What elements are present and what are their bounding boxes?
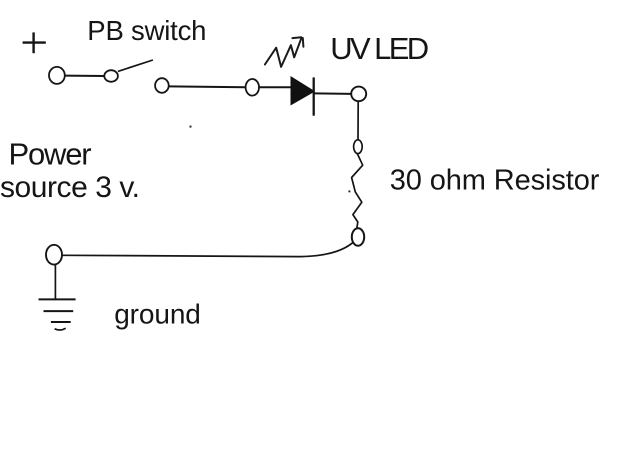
return wire resistor to battery negative (62, 243, 353, 257)
LED D1 triangle (anode) (291, 77, 314, 105)
resistor R1 bottom terminal ellipse (352, 228, 364, 245)
svg-text:PB switch: PB switch (87, 15, 206, 46)
switch throw terminal circle (155, 78, 169, 93)
wire terminal down to ground (54, 265, 56, 299)
svg-text:ground: ground (114, 299, 201, 330)
wire switch to LED anode node (169, 85, 246, 88)
top node circle (351, 87, 366, 102)
stray dot near switch area (189, 125, 191, 127)
wire pole to lever pivot (65, 75, 105, 77)
svg-text:Power: Power (9, 137, 92, 172)
wire node to LED anode (259, 86, 292, 88)
resistor R1 top terminal ellipse (354, 140, 363, 154)
LED anode node circle (246, 79, 259, 96)
battery negative terminal ellipse (46, 245, 62, 265)
svg-text:UV LED: UV LED (330, 31, 428, 66)
stray dot left of resistor (348, 190, 350, 192)
wire cathode to top node (315, 92, 352, 95)
svg-text:source 3 v.: source 3 v. (0, 171, 140, 204)
switch lever arm (open) (118, 60, 153, 71)
LED D1 cathode bar (313, 77, 315, 115)
switch S1 pole terminal circle (49, 67, 65, 84)
switch lever pivot circle (104, 70, 118, 82)
LED emission arrow (zigzag) (265, 37, 304, 67)
svg-text:30 ohm Resistor: 30 ohm Resistor (390, 164, 600, 196)
resistor R1 zigzag body (352, 154, 363, 229)
plus sign (+) battery positive terminal (23, 32, 46, 53)
ground symbol (39, 299, 76, 330)
wire node down to resistor (357, 101, 359, 140)
